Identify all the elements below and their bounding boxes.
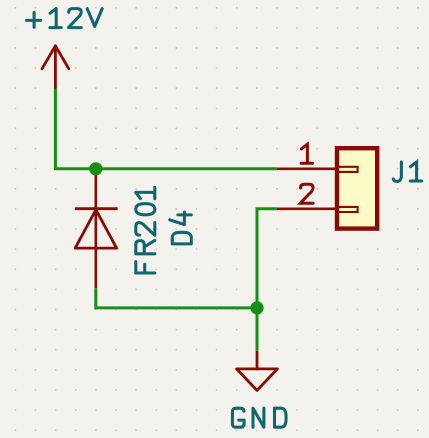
diode D4 pins [95,169,98,288]
diode D4 body [75,209,118,248]
junction node A [89,162,102,175]
reference J1 [393,162,421,181]
ground symbol [237,351,278,391]
pin 2 socket notch [339,207,358,212]
pin number 1 [301,144,312,163]
reference label D4 [170,212,192,244]
connector J1 pin 2 [277,208,336,211]
pin number 2 [300,184,313,203]
power symbol +12V arrow [42,46,69,87]
pin 1 socket notch [339,167,358,172]
wire from +12V to pin 1 [55,87,277,169]
net label GND [232,408,286,427]
net label +12V [27,9,103,28]
wire from pin 2 down to GND [257,209,277,351]
value label FR201 [136,187,155,273]
connector J1 body [337,148,377,228]
junction node B [250,301,263,314]
connector J1 pin 1 [277,168,336,171]
wire from diode anode to junction B [96,288,257,308]
